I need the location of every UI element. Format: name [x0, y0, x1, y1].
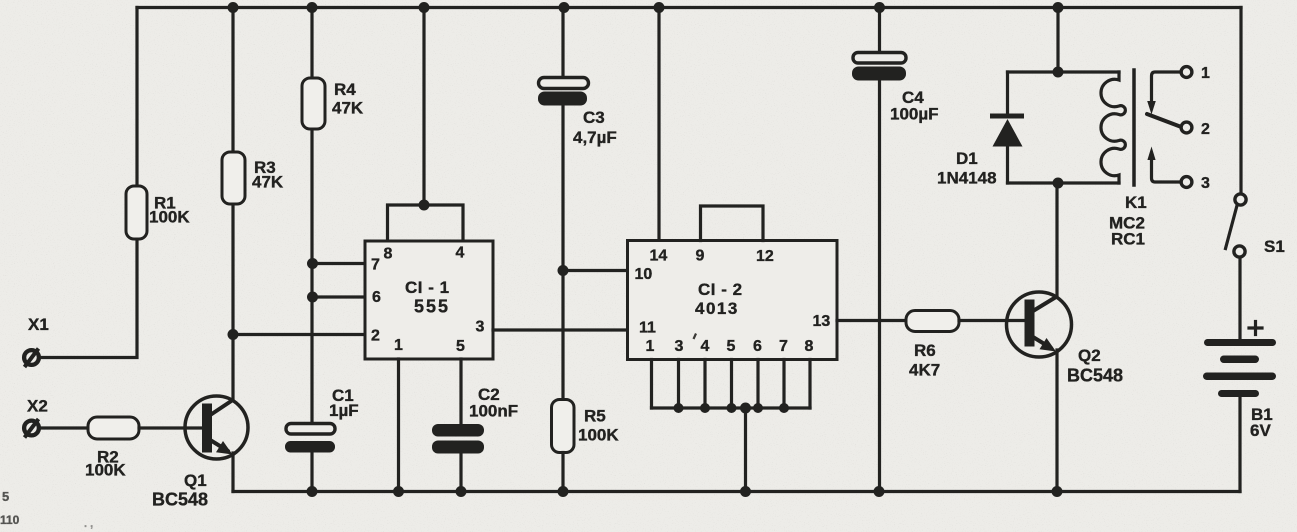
node junction pin7	[307, 258, 318, 269]
resistor R1	[126, 186, 147, 239]
wire pin5 to C2	[459, 359, 462, 424]
svg-text:5: 5	[456, 338, 465, 355]
capacitor C4 column	[852, 8, 906, 492]
wire C3/R5 column top segment	[561, 8, 564, 78]
resistor R3	[222, 152, 245, 204]
node junction bracket	[419, 200, 430, 211]
wire pin3 of CI-1 to pin11 of CI-2	[493, 328, 628, 331]
svg-text:100K: 100K	[85, 461, 126, 480]
wire pin13 of CI-2 to R6	[837, 319, 906, 322]
switch S1	[1226, 8, 1247, 340]
relay contact 2	[1181, 122, 1192, 133]
svg-text:13: 13	[813, 313, 831, 330]
node junction pin10 feed	[558, 265, 569, 276]
svg-text:BC548: BC548	[1067, 366, 1123, 386]
svg-text:6: 6	[753, 338, 762, 355]
svg-text:2: 2	[1201, 121, 1210, 138]
svg-text:7: 7	[371, 257, 380, 274]
relay K1 coil	[1101, 72, 1125, 183]
relay K1 core bar	[1132, 70, 1136, 185]
capacitor C1	[285, 424, 335, 492]
svg-text:555: 555	[414, 297, 450, 317]
wire ground rail	[233, 490, 1240, 493]
node junction pin6	[307, 292, 318, 303]
node junctions top rail	[228, 2, 1064, 13]
svg-text:R6: R6	[914, 341, 936, 360]
svg-text:14: 14	[650, 248, 668, 265]
wire R3 column (rail to Q1 collector)	[231, 8, 234, 400]
wire R2 to Q1 base	[139, 426, 204, 429]
svg-text:K1: K1	[1125, 193, 1147, 212]
wire R4/C1 column	[310, 8, 313, 425]
svg-text:100nF: 100nF	[469, 402, 518, 421]
svg-text:4: 4	[456, 245, 465, 262]
capacitor C3	[538, 78, 589, 106]
wire R6 to Q2 base	[959, 319, 1026, 322]
svg-text:11: 11	[639, 320, 656, 337]
wire pin7 of CI-1	[312, 262, 365, 265]
svg-text:X1: X1	[28, 315, 49, 334]
svg-text:X2: X2	[27, 397, 48, 416]
wire pin1 to ground	[397, 359, 400, 492]
svg-text:8: 8	[805, 338, 814, 355]
svg-text:2: 2	[371, 328, 380, 345]
faint page bleed marks	[0, 489, 93, 530]
wire bracket pins 9-12	[701, 206, 764, 241]
svg-text:4,7µF: 4,7µF	[573, 128, 617, 147]
svg-text:RC1: RC1	[1111, 230, 1145, 249]
relay contact 1	[1147, 67, 1192, 115]
wire bracket over CI-1	[388, 205, 464, 241]
wire relay column from rail	[1056, 8, 1059, 73]
wire bus to ground	[744, 408, 747, 492]
terminal X1	[24, 349, 39, 368]
wire R5 to ground	[561, 453, 564, 492]
battery B1	[1203, 339, 1276, 492]
svg-text:4: 4	[701, 338, 710, 355]
capacitor C2	[432, 424, 484, 492]
wire top supply rail	[137, 6, 1241, 9]
wire CI-1 pin8/pin4 bracket feed	[422, 8, 425, 206]
svg-text:BC548: BC548	[152, 490, 208, 510]
resistor R6	[906, 311, 959, 332]
wire CI-2 bottom pin stubs	[652, 360, 811, 409]
node junction R3/pin2	[228, 329, 239, 340]
svg-text:3: 3	[675, 338, 684, 355]
svg-text:8: 8	[384, 246, 393, 263]
wire C3 to R5 column	[561, 105, 564, 400]
svg-text:5: 5	[2, 489, 9, 504]
svg-text:3: 3	[476, 319, 485, 336]
terminal X2	[24, 419, 39, 438]
svg-text:100K: 100K	[578, 426, 619, 445]
svg-text:D1: D1	[956, 149, 978, 168]
stray scan mark	[694, 334, 697, 340]
svg-text:Q1: Q1	[184, 471, 207, 490]
svg-text:100K: 100K	[149, 208, 190, 227]
wire CI-2 ground bus	[652, 406, 811, 409]
resistor R4	[302, 78, 325, 129]
svg-text:47K: 47K	[252, 173, 284, 192]
op-amp CI-1 555 box	[365, 241, 493, 359]
svg-text:47K: 47K	[332, 99, 364, 118]
svg-text:10: 10	[635, 266, 653, 283]
svg-text:CI - 1: CI - 1	[405, 278, 450, 297]
svg-text:1: 1	[646, 338, 655, 355]
wire pin10 of CI-2	[563, 269, 628, 272]
wire pin2 of CI-1	[233, 333, 365, 336]
transistor Q1	[185, 396, 248, 492]
svg-text:7: 7	[779, 338, 788, 355]
node junctions ground rail	[307, 486, 1063, 497]
IC CI-2 4013 box	[628, 241, 838, 360]
svg-text:5: 5	[727, 338, 736, 355]
svg-text:S1: S1	[1264, 237, 1285, 256]
wire relay/diode loop bottom	[1008, 181, 1120, 184]
wire X2 to R2	[42, 426, 89, 429]
svg-text:CI - 2: CI - 2	[698, 280, 743, 299]
svg-text:100µF: 100µF	[890, 105, 939, 124]
svg-text:Q2: Q2	[1078, 346, 1101, 365]
relay armature to contact 2	[1147, 114, 1180, 127]
relay contact 3	[1147, 147, 1192, 188]
svg-text:4013: 4013	[695, 299, 739, 318]
diode D1	[990, 72, 1024, 183]
battery plus sign	[1249, 322, 1262, 335]
wire pin14 column	[657, 8, 660, 241]
svg-text:6V: 6V	[1250, 421, 1271, 440]
svg-text:1µF: 1µF	[329, 401, 359, 420]
svg-text:R4: R4	[334, 80, 356, 99]
svg-text:C3: C3	[583, 108, 605, 127]
svg-text:R5: R5	[584, 407, 606, 426]
svg-text:110: 110	[0, 513, 20, 527]
wire relay/diode loop top	[1008, 70, 1120, 73]
node junction relay bottom	[1053, 178, 1064, 189]
wire pin6 of CI-1	[312, 295, 365, 298]
svg-text:9: 9	[696, 248, 705, 265]
node junction relay top	[1053, 67, 1064, 78]
svg-text:3: 3	[1201, 175, 1210, 192]
resistor R2	[88, 417, 139, 439]
resistor R5	[552, 400, 575, 453]
svg-text:1N4148: 1N4148	[937, 169, 997, 188]
wire R1 column and X1 lead	[41, 8, 137, 358]
svg-text:6: 6	[372, 289, 381, 306]
transistor Q2	[1007, 183, 1072, 492]
svg-text:4K7: 4K7	[909, 361, 940, 380]
svg-text:1: 1	[1201, 65, 1210, 82]
svg-text:1: 1	[394, 337, 403, 354]
svg-text:. ,: . ,	[84, 518, 93, 530]
svg-text:12: 12	[756, 248, 774, 265]
node junctions on bus	[674, 403, 790, 414]
